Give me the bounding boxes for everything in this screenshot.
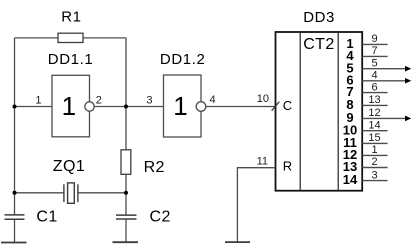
svg-text:15: 15 xyxy=(368,132,380,144)
bubble DD1.2 output xyxy=(196,102,206,112)
svg-text:R2: R2 xyxy=(144,159,165,176)
svg-text:13: 13 xyxy=(368,94,380,106)
inverter DD1.1 xyxy=(52,75,90,137)
svg-text:DD1.2: DD1.2 xyxy=(160,51,206,68)
bubble DD1.1 output xyxy=(85,102,94,111)
svg-text:CT2: CT2 xyxy=(303,36,334,53)
svg-text:C2: C2 xyxy=(150,209,171,226)
svg-text:2: 2 xyxy=(371,156,377,168)
wire feedback top xyxy=(15,37,127,39)
wire left rail lower xyxy=(14,219,16,242)
svg-text:10: 10 xyxy=(257,93,269,105)
output row Q1 pin 9 xyxy=(362,43,387,45)
resistor R1 xyxy=(58,33,83,42)
wire R input xyxy=(237,168,275,242)
output row Q11 pin 15 xyxy=(362,142,387,144)
output row Q5 pin 5 (arrow) xyxy=(362,68,405,70)
output row Q14 pin 3 xyxy=(362,180,387,182)
ground R xyxy=(225,241,250,243)
wire bottom left to crystal xyxy=(15,192,64,194)
counter DD3 xyxy=(276,32,363,191)
svg-text:6: 6 xyxy=(371,81,377,93)
wire right rail lower xyxy=(125,219,127,242)
wire DD1.1 output to DD1.2 xyxy=(94,106,164,108)
ground C2 xyxy=(113,241,139,243)
output row Q8 pin 13 xyxy=(362,104,387,106)
wire left rail xyxy=(14,38,16,215)
output row Q6 pin 4 (arrow) xyxy=(362,80,405,82)
svg-text:14: 14 xyxy=(368,119,380,131)
svg-text:3: 3 xyxy=(371,169,377,181)
junction node D (right rail, bottom wire) xyxy=(124,191,128,195)
svg-text:4: 4 xyxy=(371,70,377,82)
outputs xyxy=(343,33,412,187)
svg-text:1: 1 xyxy=(62,91,76,121)
svg-text:3: 3 xyxy=(146,95,152,107)
svg-text:C: C xyxy=(283,98,292,113)
output row Q10 pin 14 xyxy=(362,130,387,132)
crystal ZQ1 xyxy=(64,183,78,203)
svg-text:11: 11 xyxy=(257,156,268,168)
svg-text:12: 12 xyxy=(368,107,380,119)
svg-text:4: 4 xyxy=(210,94,216,106)
junction node B (right rail, main wire) xyxy=(124,105,128,109)
wire DD1.1 input xyxy=(15,106,53,108)
divider 1 xyxy=(299,32,301,191)
dynamic input tick xyxy=(272,102,280,111)
svg-text:R1: R1 xyxy=(61,8,81,25)
wire crystal to right rail xyxy=(78,192,126,194)
output row Q9 pin 12 (arrow) xyxy=(362,117,405,119)
svg-text:7: 7 xyxy=(371,45,377,57)
ground C1 xyxy=(1,242,27,244)
resistor R2 xyxy=(121,150,131,175)
svg-text:R: R xyxy=(283,159,292,174)
svg-text:14: 14 xyxy=(343,172,358,187)
junction node C (left, bottom wire) xyxy=(13,191,17,195)
svg-text:C1: C1 xyxy=(36,209,57,226)
output row Q12 pin 1 xyxy=(362,154,387,156)
output row Q13 pin 2 xyxy=(362,167,387,169)
svg-text:ZQ1: ZQ1 xyxy=(53,158,85,175)
svg-text:1: 1 xyxy=(35,94,41,106)
wire DD1.2 output to DD3 C xyxy=(206,106,276,108)
svg-text:1: 1 xyxy=(371,144,377,156)
output row Q7 pin 6 xyxy=(362,92,387,94)
capacitor C2 xyxy=(116,215,137,219)
divider 2 xyxy=(337,32,339,191)
capacitor C1 xyxy=(5,215,25,219)
wire right rail xyxy=(125,38,127,215)
output row Q4 pin 7 xyxy=(362,55,387,57)
junction node A (left, main wire) xyxy=(13,105,17,109)
svg-text:DD3: DD3 xyxy=(303,9,335,26)
inverter DD1.2 xyxy=(164,75,202,137)
svg-text:DD1.1: DD1.1 xyxy=(48,51,94,68)
svg-text:9: 9 xyxy=(371,33,377,45)
svg-text:1: 1 xyxy=(173,91,187,121)
svg-text:5: 5 xyxy=(371,57,377,69)
svg-text:2: 2 xyxy=(96,95,102,107)
